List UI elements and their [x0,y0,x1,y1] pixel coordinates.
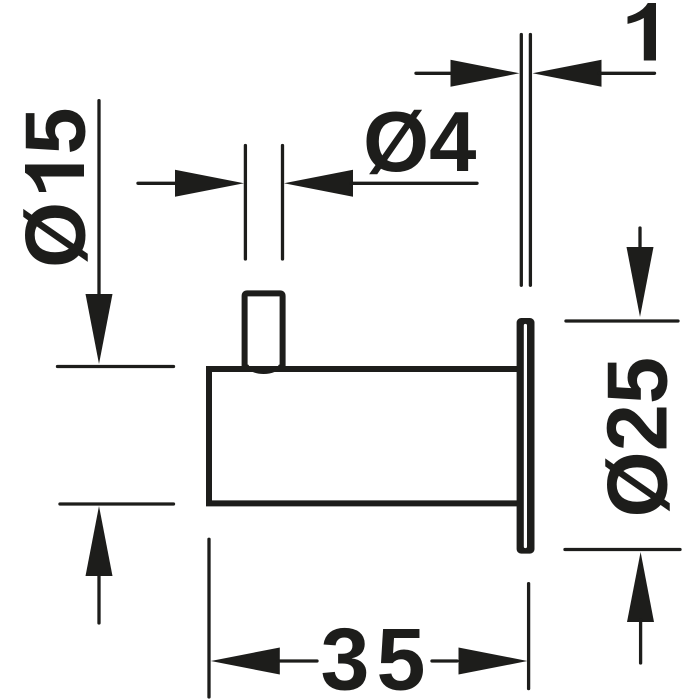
dimension Ø15: digit 1 of label [25,165,84,193]
dimension Ø4: left dimension line [138,182,178,185]
svg-text:Ø: Ø [9,202,104,268]
dimension Ø15: top extension line (body top level) [58,365,174,368]
dimension 35: left dimension line tail [278,659,317,662]
svg-text:5: 5 [9,107,104,154]
dimension 35: right dimension line tail [432,659,457,662]
svg-text:Ø25: Ø25 [591,357,686,518]
dimension 1: right dimension line tail [599,72,655,75]
dimension 35: right extension line [527,584,530,689]
dimension 35: left extension line [207,539,210,697]
dimension 35: left-pointing arrowhead [211,648,280,675]
dimension Ø4: right dimension line tail [351,182,477,185]
dimension 1: right plate extension line [529,35,532,286]
peg Ø4 on top of body [245,293,283,366]
dimension Ø15: lower dimension line tail [97,574,100,623]
dimension 1: left dimension line [416,72,452,75]
body: cylinder side view (hook body) [209,369,518,503]
dimension 1: label text [628,3,657,61]
svg-text:Ø4: Ø4 [363,95,476,190]
dimension Ø4: left extension line [244,146,247,260]
dimension Ø4: right extension line [281,146,284,260]
wall plate inner slit [524,326,527,547]
dimension Ø25: upper dimension line [638,228,641,250]
dimension 1: left plate extension line [520,35,523,286]
dimension Ø4: left-pointing arrowhead [284,170,353,197]
dimension Ø25: lower dimension line tail [639,620,642,663]
wall plate (flange, thickness 1) [517,318,535,554]
dimension Ø25: bottom extension line [565,548,680,551]
svg-text:35: 35 [321,610,433,700]
dimension Ø25: down arrowhead [627,247,654,317]
dimension 1: left-pointing arrowhead [533,60,602,87]
dimension 35: right-pointing arrowhead [459,648,528,675]
dimension Ø15: bottom extension line (body bottom level) [60,502,174,505]
peg base arc (cylinder curve) [248,366,280,373]
dimension 1: right-pointing arrowhead [451,60,520,87]
dimension Ø25: up arrowhead [627,552,654,622]
dimension Ø15: up arrowhead [86,506,113,576]
dimension Ø4: right-pointing arrowhead [175,170,244,197]
dimension Ø15: upper dimension line with down arrow [97,101,100,296]
dimension Ø25: top extension line [566,319,678,322]
dimension Ø15: down arrowhead [86,294,113,364]
